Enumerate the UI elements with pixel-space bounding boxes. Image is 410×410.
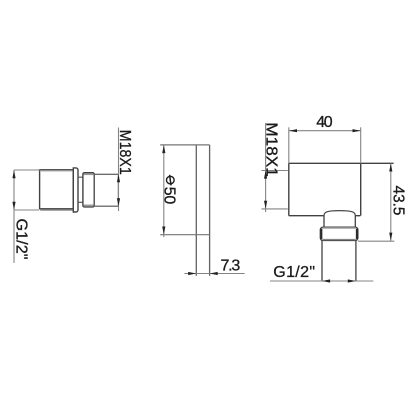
dimension D50: dim line (163, 145, 165, 237)
dimension 7.3: dim line (184, 273, 244, 275)
dimension G1/2 right: left arrow (322, 279, 330, 282)
collar top gray band (84, 173, 94, 175)
nut (320, 227, 358, 240)
neck left line (323, 216, 325, 228)
body top edge + 43.5 extension (289, 162, 394, 164)
nut bottom gray band (323, 239, 356, 241)
plate bottom edge + extension (160, 234, 209, 236)
body bottom edge left part (289, 215, 325, 217)
nut right thick side (356, 229, 358, 240)
dimension 40: left extension above body (288, 127, 290, 163)
flange (73, 168, 78, 212)
dimension G1/2 left: arrow down (12, 202, 15, 210)
svg-text:43.5: 43.5 (390, 186, 407, 216)
nut left thick side (320, 229, 322, 240)
svg-text:50: 50 (161, 187, 178, 205)
body top gray shade (40, 170, 73, 172)
body left edge (288, 163, 290, 215)
svg-text:7.3: 7.3 (221, 257, 241, 274)
plate top edge + extension (160, 144, 209, 146)
svg-text:40: 40 (316, 114, 332, 131)
svg-text:G1/2": G1/2" (273, 264, 315, 281)
dimension G1/2 left: arrow up (12, 170, 15, 178)
thread stub M18 (94, 174, 118, 206)
dimension D50: arrow up (162, 145, 165, 153)
dimension M18X1 right: top extension line (262, 170, 288, 172)
body right edge (360, 163, 362, 215)
dome boss (324, 211, 355, 216)
dimension G1/2 left: top extension line (14, 169, 40, 171)
dimension D50: phi symbol slash (170, 175, 171, 186)
body G1/2 socket (40, 170, 74, 209)
dimension G1/2 right: right arrow (348, 279, 356, 282)
plate right edge (209, 145, 211, 276)
svg-text:M18X1: M18X1 (263, 122, 280, 177)
dimension 40: right extension above body (360, 127, 362, 163)
body bottom edge right part (355, 215, 360, 217)
dimension D50: arrow down (162, 227, 165, 235)
dimension M18X1 left: arrow down (117, 198, 120, 206)
dimension D50: phi symbol circle (167, 176, 175, 184)
dimension M18X1 right: bottom extension line (262, 208, 288, 210)
collar bottom gray band (84, 204, 94, 206)
dimension 43.5: dim line (390, 163, 392, 240)
dimension 40: dim line (289, 130, 361, 132)
neck right line (354, 216, 356, 228)
dimension M18X1 right: arrow down (264, 201, 267, 209)
dimension 43.5: arrow down (389, 233, 392, 241)
dimension 7.3: left arrow (188, 272, 196, 275)
dimension 40: left arrow (289, 129, 297, 132)
dimension G1/2 left: bottom extension line (14, 209, 39, 211)
svg-text:M18X1: M18X1 (116, 130, 133, 175)
dimension 43.5: arrow up (389, 164, 392, 172)
dimension 43.5: bottom extension line (358, 240, 394, 242)
dimension M18X1 right: arrow up (264, 171, 267, 179)
plate left edge (195, 145, 197, 276)
dimension M18X1 left: arrow up (117, 174, 120, 182)
pipe right edge (355, 241, 357, 282)
pipe left edge (321, 241, 323, 282)
collar (83, 173, 94, 207)
nut top gray band (323, 227, 356, 229)
dimension G1/2 right: dim line (270, 280, 373, 282)
neck wire bottom (78, 201, 83, 203)
dimension M18X1 left: dim line (118, 128, 120, 212)
neck wire top (78, 176, 83, 178)
body bottom gray shade (40, 209, 73, 211)
dimension 40: right arrow (353, 129, 361, 132)
dimension 7.3: right arrow (210, 272, 218, 275)
dimension G1/2 left: dim line (13, 170, 15, 263)
svg-text:G1/2": G1/2" (13, 219, 30, 260)
dimension M18X1 right: dim line (265, 123, 267, 212)
